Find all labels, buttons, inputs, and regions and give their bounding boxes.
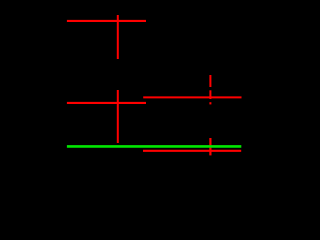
pin P2 vertical through bottom lines bbox=[209, 138, 211, 155]
wire W6 bottom red horizontal bbox=[143, 150, 241, 152]
wire W2 vertical stub through W1 bbox=[117, 15, 119, 59]
wire W3 middle horizontal bbox=[67, 102, 146, 104]
pin P1 dashed vertical upper segment bbox=[209, 75, 211, 87]
pin P1 dashed vertical middle segment bbox=[209, 90, 211, 99]
net N1 green horizontal bbox=[67, 145, 241, 148]
wire W4 vertical stub through W3 bbox=[117, 90, 119, 143]
wire W1 top horizontal bbox=[67, 20, 146, 22]
wire W5 long right horizontal bbox=[143, 96, 241, 98]
pin P1 dashed vertical short dash bbox=[209, 102, 211, 104]
